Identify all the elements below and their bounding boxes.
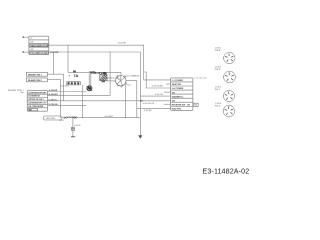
- starter cable pair: [89, 73, 91, 86]
- stub row4: [164, 91, 171, 93]
- stub pin top: [23, 36, 29, 37]
- wire switch right to bus: [126, 81, 137, 118]
- svg-text:4-10 RD-BK: 4-10 RD-BK: [152, 86, 164, 88]
- svg-text:L-H POWER: L-H POWER: [172, 88, 184, 90]
- svg-text:NF-1: NF-1: [60, 120, 65, 122]
- wire alt run: [47, 90, 86, 92]
- svg-text:SCHEME B1: SCHEME B1: [28, 96, 41, 98]
- svg-text:4-10 ORANGE: 4-10 ORANGE: [125, 74, 139, 77]
- svg-text:7A: 7A: [73, 73, 78, 78]
- wire sw2 out: [47, 79, 60, 117]
- wire switch left: [103, 80, 116, 82]
- wire solenoid feed vertical: [109, 52, 111, 95]
- svg-text:GN: GN: [30, 49, 34, 51]
- connector block J1 (top left switch list): [29, 36, 49, 54]
- svg-text:BRAKE SW 1: BRAKE SW 1: [28, 73, 43, 76]
- wire seat-switch to harness (top run): [49, 45, 171, 80]
- svg-text:SEAT SWITCH OR: SEAT SWITCH OR: [30, 44, 48, 47]
- svg-text:MAGNETO L: MAGNETO L: [172, 95, 185, 98]
- inline connector dark block: [104, 72, 107, 74]
- engine ground stub: [71, 118, 81, 137]
- brake switch SW1: [26, 72, 47, 76]
- svg-text:OIL PRESSURE: OIL PRESSURE: [28, 106, 44, 108]
- svg-text:BLADE SW 2: BLADE SW 2: [28, 79, 42, 82]
- key switch S1: [116, 75, 127, 87]
- battery terminal strip: [67, 82, 81, 85]
- svg-text:4-10 BK: 4-10 BK: [144, 110, 152, 112]
- connector view P1: [215, 48, 235, 64]
- svg-text:E3-11482A-02: E3-11482A-02: [202, 167, 249, 176]
- svg-text:PIN D: PIN D: [215, 105, 221, 107]
- svg-text:4-10 RD: 4-10 RD: [61, 86, 69, 88]
- svg-text:PTO SWITCH GN: PTO SWITCH GN: [30, 53, 47, 55]
- svg-text:REVERSE SW - GN: REVERSE SW - GN: [172, 104, 191, 106]
- harness splice chevrons: [90, 71, 96, 73]
- starter motor M1: [87, 86, 93, 91]
- stub pin bottom: [23, 51, 29, 52]
- connector view P4: [215, 103, 235, 117]
- connector view P3: [215, 87, 235, 102]
- wire main power run: [68, 71, 121, 73]
- svg-text:4-10 B: 4-10 B: [74, 125, 81, 127]
- connector view P2: [215, 67, 236, 83]
- svg-text:A-OB-BK: A-OB-BK: [49, 89, 58, 92]
- svg-text:D-OB-GN: D-OB-GN: [49, 104, 58, 106]
- wire switch bottom drop: [125, 84, 127, 118]
- harness connector CON1 (right list): [171, 78, 193, 111]
- wire seat stub: [166, 83, 171, 85]
- svg-text:AFTER OB GN L: AFTER OB GN L: [28, 98, 44, 101]
- svg-text:4-10 BLK: 4-10 BLK: [104, 116, 113, 118]
- splice X2: [74, 116, 77, 119]
- engine connector E1 (lower-left list): [27, 91, 47, 112]
- svg-text:CON 034-4567: CON 034-4567: [194, 77, 208, 79]
- svg-text:C-OB-YL: C-OB-YL: [49, 99, 58, 101]
- wire oil pressure run: [47, 104, 86, 106]
- svg-text:E-10 BK: E-10 BK: [118, 43, 126, 45]
- brake switch SW2: [26, 78, 47, 82]
- wire run to magneto row: [140, 95, 170, 97]
- svg-text:SEAT SW: SEAT SW: [172, 83, 181, 86]
- svg-text:PIN C: PIN C: [215, 89, 221, 91]
- wire ground run: [62, 117, 140, 119]
- svg-text:B-OB-WH: B-OB-WH: [49, 94, 59, 96]
- svg-text:GROUND: GROUND: [46, 118, 56, 120]
- splice X1: [64, 116, 67, 119]
- wire rev stub: [164, 103, 171, 105]
- svg-text:PIN A: PIN A: [215, 49, 221, 52]
- wire battery feed vertical: [67, 45, 69, 72]
- svg-text:+: +: [68, 74, 70, 78]
- ground lug G1: [43, 116, 62, 120]
- wire branch to LH power: [144, 72, 171, 88]
- wire magneto feed: [137, 107, 171, 109]
- svg-text:OR: OR: [30, 42, 34, 44]
- wire magneto kill run: [47, 100, 170, 102]
- svg-text:4-10 OR: 4-10 OR: [95, 71, 105, 75]
- svg-text:N.O.: N.O.: [127, 85, 132, 87]
- svg-text:L-1 POWER: L-1 POWER: [172, 80, 184, 82]
- wire b+ run to switch: [47, 94, 110, 96]
- wire sw1 out: [47, 74, 63, 101]
- svg-text:4-10 RD: 4-10 RD: [50, 51, 59, 54]
- svg-text:4-10 GN-YE: 4-10 GN-YE: [143, 103, 155, 105]
- svg-text:ALTERNATOR BK1: ALTERNATOR BK1: [28, 91, 47, 94]
- svg-text:A-10 OR: A-10 OR: [110, 77, 119, 80]
- fuse label box: [193, 103, 198, 107]
- wire battery neg drop: [82, 85, 84, 118]
- battery B1 polarity and 7A rating: [68, 73, 78, 78]
- wire pto-switch to ground run: [49, 52, 141, 135]
- fuse F1: [73, 71, 75, 73]
- svg-text:ENGINE TYPE 1: ENGINE TYPE 1: [8, 90, 25, 92]
- svg-text:MAG PRG: MAG PRG: [172, 108, 182, 111]
- svg-text:PIN B: PIN B: [215, 69, 221, 71]
- svg-text:ALTERNATOR 13 V: ALTERNATOR 13 V: [28, 102, 47, 105]
- ground: [138, 135, 142, 139]
- splice S2: [141, 100, 143, 102]
- wire brake switch feed: [52, 52, 54, 74]
- solenoid K1: [100, 73, 107, 83]
